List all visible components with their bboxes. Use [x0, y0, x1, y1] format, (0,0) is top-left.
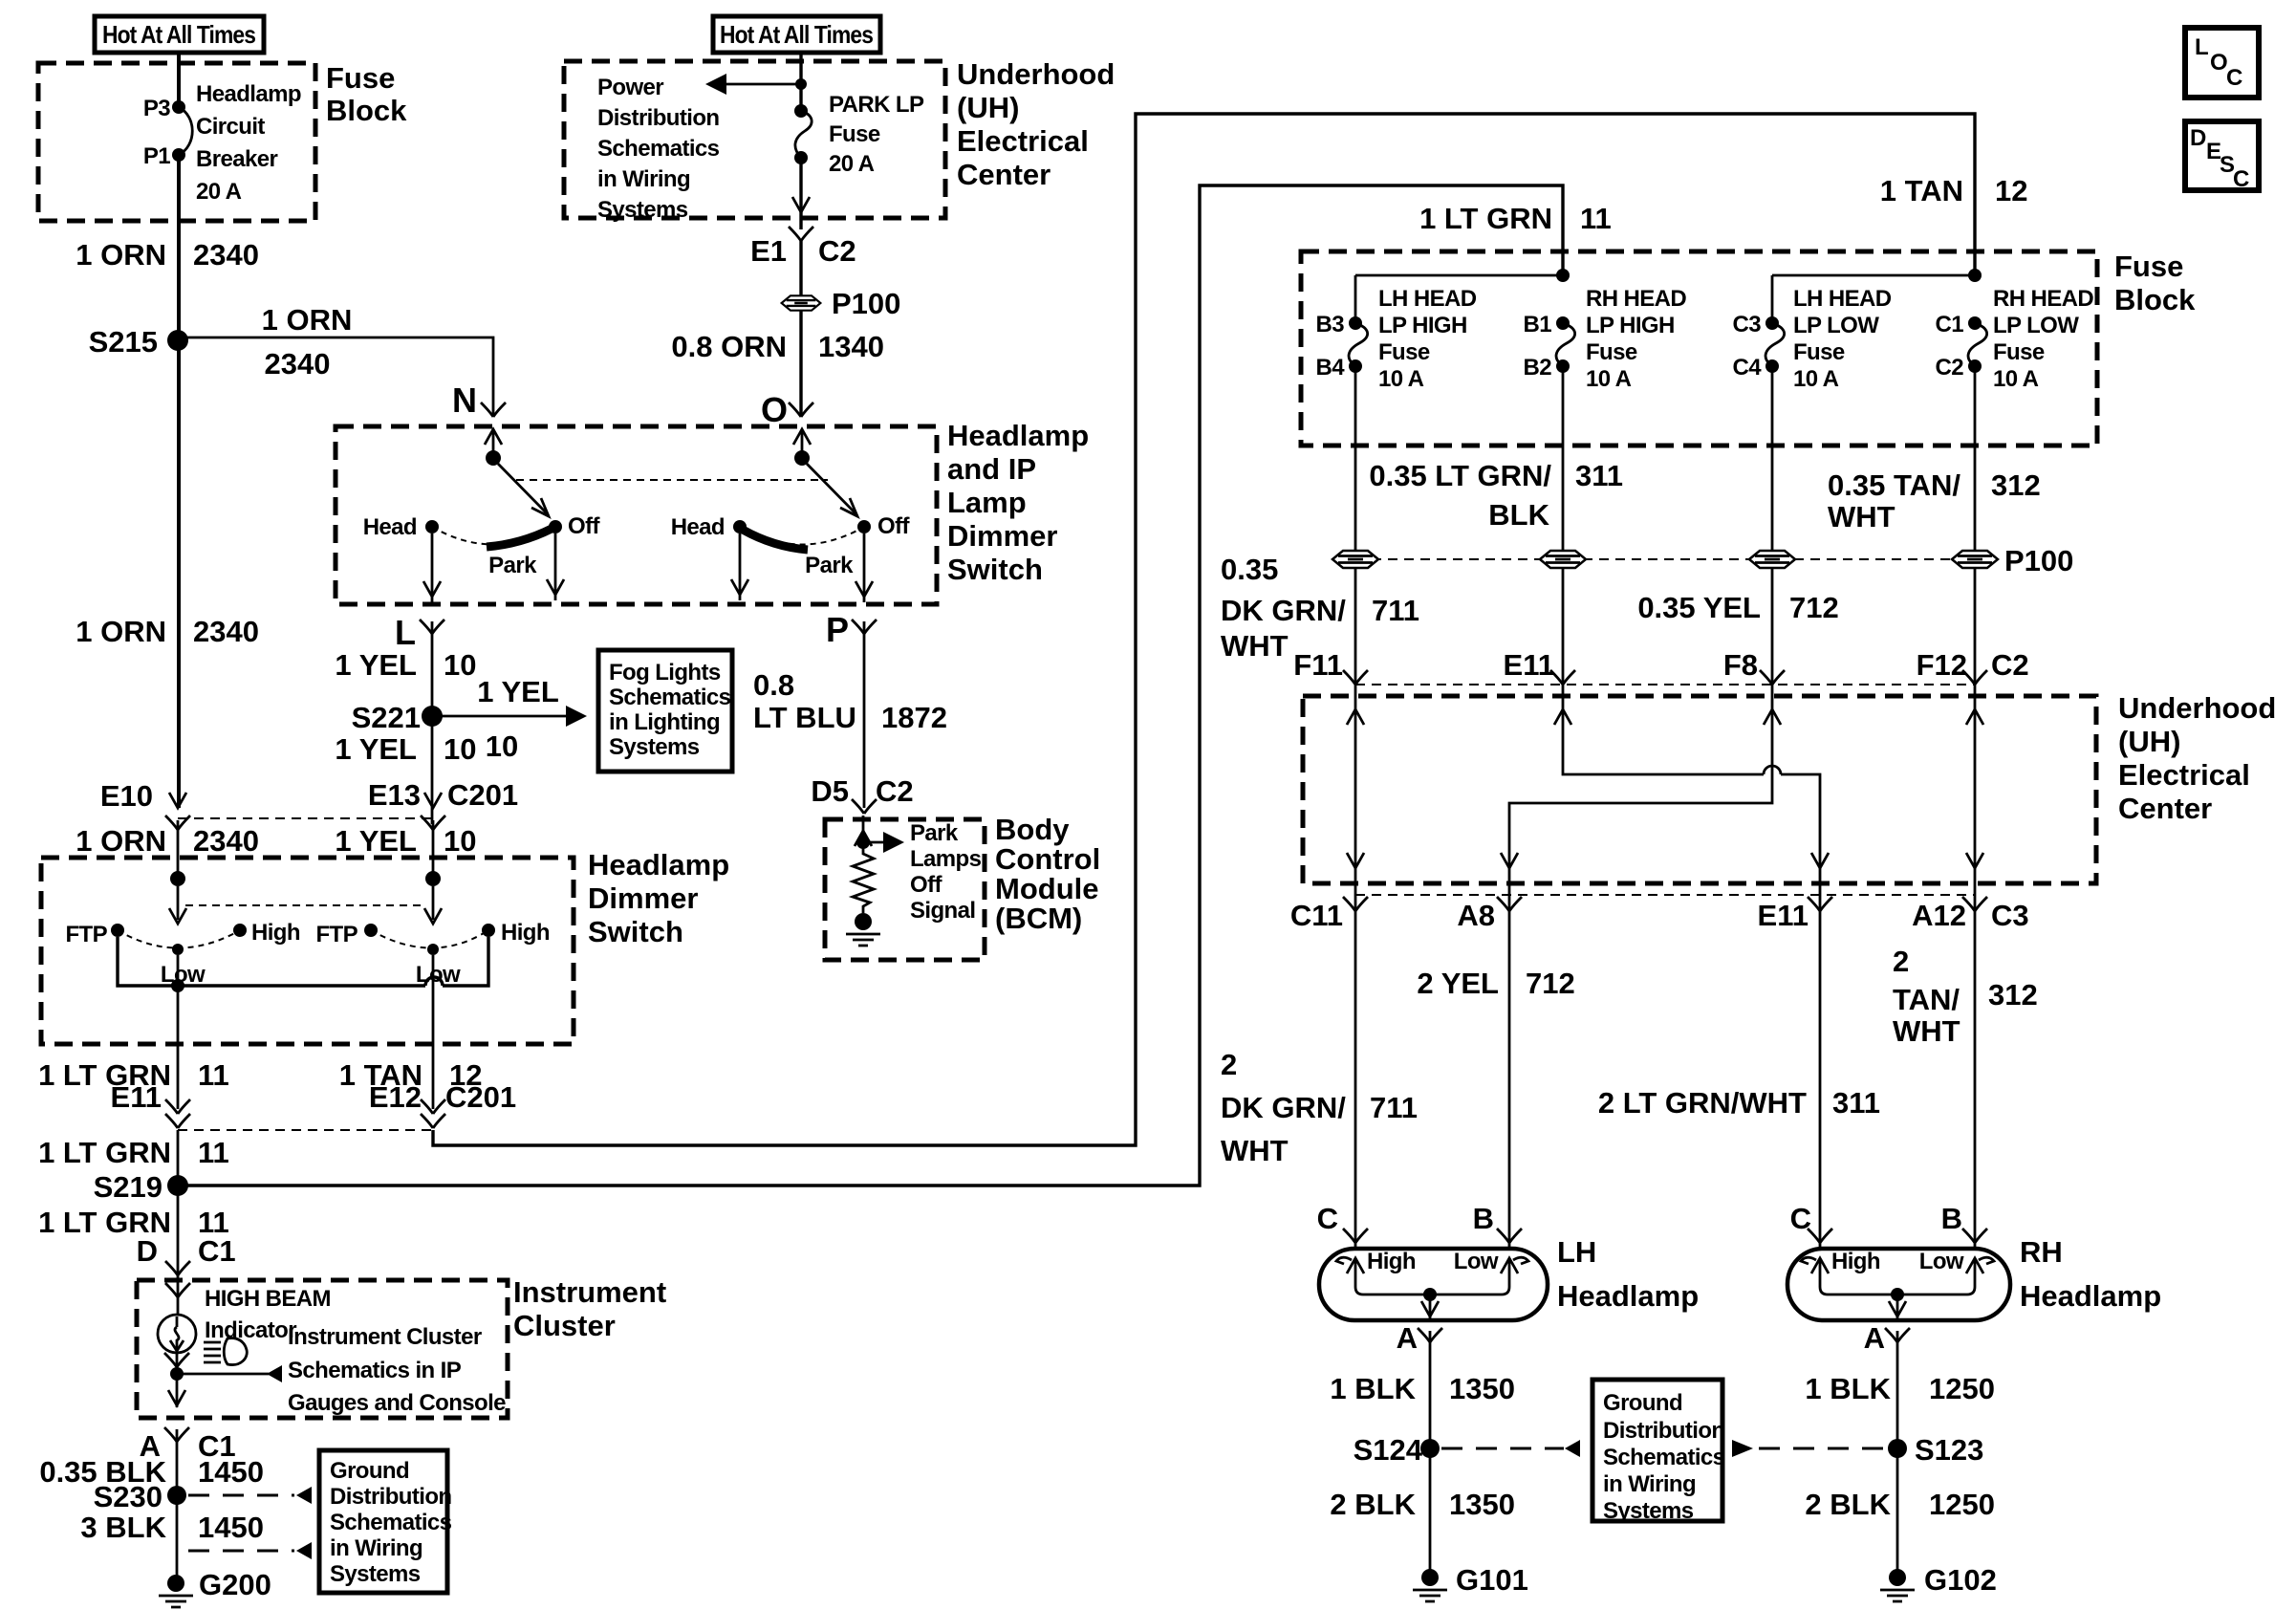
label Instrument Cluster Schematics in IP Gauges and Console: [288, 1324, 506, 1416]
arrow at box edge (Off stub): [547, 579, 564, 595]
inline connector P100 (F12 wire): [1952, 551, 1998, 568]
wire Off contact down to P: [863, 533, 866, 602]
inline connector P100 (middle): [782, 295, 821, 310]
wire 0.35 BLK cluster to S230: [176, 1429, 179, 1585]
svg-text:2: 2: [1893, 945, 1909, 978]
svg-text:20 A: 20 A: [196, 179, 242, 205]
svg-text:Fuse: Fuse: [2114, 250, 2183, 283]
label Underhood (UH) Electrical Center (top): [957, 57, 1115, 191]
arrow exiting UH (C11): [1347, 853, 1364, 868]
wire Head contact stub down (switch 2): [739, 533, 742, 600]
svg-text:E11: E11: [1758, 899, 1809, 932]
svg-text:G102: G102: [1924, 1563, 1997, 1597]
svg-text:11: 11: [1580, 202, 1612, 235]
dimmer switch 2 wiper arrow to Low: [424, 886, 442, 924]
RH high beam filament: [1801, 1257, 1829, 1287]
switch 2 contact Head: [733, 520, 747, 533]
inline connector P100 (E11 wire): [1540, 551, 1586, 568]
svg-text:Lamp: Lamp: [947, 486, 1027, 519]
svg-text:in Wiring: in Wiring: [330, 1535, 422, 1561]
connector chevron RH C: [1808, 1229, 1832, 1243]
fuse RH HEAD LP HIGH 10A: [1556, 316, 1575, 373]
svg-text:Instrument Cluster: Instrument Cluster: [288, 1324, 482, 1350]
junction TAN bus: [1968, 269, 1982, 282]
label Headlamp and IP Lamp Dimmer Switch: [947, 419, 1089, 586]
label HIGH BEAM Indicator: [205, 1286, 331, 1343]
svg-text:1 ORN: 1 ORN: [262, 303, 353, 337]
svg-text:S215: S215: [89, 325, 158, 359]
svg-text:0.35 LT GRN/: 0.35 LT GRN/: [1369, 459, 1551, 492]
svg-text:LP LOW: LP LOW: [1993, 313, 2079, 338]
svg-text:LP LOW: LP LOW: [1793, 313, 1879, 338]
arrow exiting cluster: [168, 1390, 185, 1405]
svg-text:Schematics: Schematics: [330, 1510, 452, 1535]
svg-text:FTP: FTP: [65, 922, 107, 947]
svg-text:10: 10: [444, 732, 476, 766]
label 1 LT GRN 11 (below box): [38, 1058, 229, 1092]
LH headlamp housing: [1319, 1249, 1548, 1320]
arrow entering UH (F8): [1764, 709, 1781, 725]
label RH HEAD LP HIGH Fuse 10 A: [1586, 286, 1686, 392]
label Park Lamps Off Signal: [910, 820, 982, 924]
svg-text:LH: LH: [1557, 1235, 1596, 1269]
svg-text:Fuse: Fuse: [1378, 339, 1430, 365]
wire C11 to LH headlamp C: [1354, 899, 1357, 1249]
svg-text:TAN/: TAN/: [1893, 983, 1960, 1016]
svg-text:S221: S221: [352, 701, 421, 734]
fog lights schematics box: [598, 650, 732, 772]
wire 1 ORN 2340 breaker to S215: [177, 155, 181, 340]
label 2 YEL 712: [1417, 967, 1574, 1000]
label Power Distribution Schematics in Wiring Systems: [597, 75, 720, 223]
node park lamps off signal: [856, 836, 870, 849]
legend box DESC: [2185, 121, 2259, 192]
svg-text:Signal: Signal: [910, 898, 975, 924]
label 0.35 LT GRN/ BLK 311: [1369, 459, 1623, 532]
connector chevron C11: [1343, 897, 1368, 911]
svg-text:10: 10: [444, 648, 476, 682]
svg-text:Head: Head: [671, 514, 725, 540]
svg-text:Fuse: Fuse: [1586, 339, 1637, 365]
connector C201 dashed line (upper): [178, 817, 433, 819]
arrow into connector C201 left: [169, 793, 186, 808]
label 3 BLK 1450: [80, 1511, 264, 1544]
node RH ground point: [1891, 1288, 1904, 1301]
switch 1 common node: [486, 450, 501, 466]
label 1 LT GRN 11 (to fuse block): [1419, 202, 1612, 235]
svg-text:Electrical: Electrical: [957, 124, 1089, 158]
svg-text:Control: Control: [995, 842, 1100, 876]
junction LT GRN bus: [1556, 269, 1570, 282]
label 1 YEL 10 (below S221): [335, 732, 476, 766]
arrow exiting UH (E11 out): [1811, 853, 1829, 868]
wire into BCM: [862, 816, 865, 849]
ground G101: [1413, 1563, 1528, 1601]
dimmer switch 1 wiper arrow to Low: [169, 886, 186, 924]
label 0.35 TAN/ WHT 312: [1828, 468, 2041, 533]
connector chevron E1/C2: [789, 227, 813, 241]
svg-text:312: 312: [1991, 468, 2041, 502]
svg-text:Fuse: Fuse: [829, 121, 880, 147]
wire 1 ORN 2340 S215 to switch N: [178, 337, 493, 417]
svg-text:311: 311: [1575, 459, 1623, 492]
svg-text:Gauges and Console: Gauges and Console: [288, 1390, 506, 1416]
splice S215: [89, 325, 188, 359]
svg-text:Power: Power: [597, 75, 663, 100]
svg-text:Headlamp: Headlamp: [196, 81, 301, 107]
LH high beam filament: [1336, 1257, 1364, 1287]
dimmer mechanical link dashed: [185, 904, 425, 906]
svg-text:E10: E10: [100, 779, 153, 813]
node fuse feed branch: [795, 78, 807, 90]
wire 1 YEL into headlamp dimmer switch: [432, 820, 435, 879]
reference arrow to IP gauges schematics: [177, 1365, 282, 1382]
svg-text:Center: Center: [957, 158, 1051, 191]
svg-text:in Wiring: in Wiring: [597, 166, 690, 192]
svg-text:Switch: Switch: [588, 915, 683, 948]
svg-text:Fuse: Fuse: [326, 61, 395, 95]
svg-text:Systems: Systems: [597, 197, 688, 223]
svg-text:Electrical: Electrical: [2118, 758, 2250, 792]
svg-text:Cluster: Cluster: [513, 1309, 616, 1342]
svg-text:Low: Low: [1919, 1249, 1964, 1274]
svg-text:1 BLK: 1 BLK: [1330, 1372, 1416, 1405]
svg-text:Underhood: Underhood: [957, 57, 1115, 91]
svg-text:2340: 2340: [193, 238, 259, 272]
arrowhead to fog lights: [566, 706, 587, 727]
connector chevron P: [852, 620, 877, 634]
ground distribution schematics box (left): [319, 1450, 447, 1593]
svg-text:C4: C4: [1733, 355, 1763, 381]
connector chevron F11: [1343, 670, 1368, 685]
svg-text:P: P: [826, 610, 849, 649]
dimmer switch 2 common node: [425, 871, 441, 886]
svg-text:1 ORN: 1 ORN: [76, 238, 166, 272]
label 1 YEL 10 (above S221): [335, 648, 476, 682]
ground G200: [159, 1568, 271, 1607]
wire fuse C4 down to F8: [1771, 366, 1774, 696]
connector chevron F12: [1962, 670, 1987, 685]
svg-text:Low: Low: [416, 962, 461, 988]
svg-text:1 ORN: 1 ORN: [76, 615, 166, 648]
connector dashed line below UH center: [1355, 894, 1975, 896]
dimmer switch 1 common node: [170, 871, 185, 886]
ground distribution schematics box (right): [1592, 1380, 1722, 1521]
dimmer switch 2 contact High: [482, 924, 495, 937]
svg-text:1 YEL: 1 YEL: [335, 732, 417, 766]
dashed reference from S230: [188, 1487, 312, 1504]
power label Hot At All Times (middle): [713, 16, 880, 53]
switch 1 contact Off: [549, 520, 562, 533]
wire feed into PARK LP fuse: [799, 53, 802, 111]
dimmer switch 2 contact Low: [427, 944, 439, 955]
svg-text:F8: F8: [1723, 648, 1758, 682]
svg-text:P3: P3: [143, 96, 170, 121]
svg-text:WHT: WHT: [1893, 1014, 1960, 1048]
fuse block (left) dashed box: [38, 63, 315, 221]
svg-text:20 A: 20 A: [829, 151, 875, 177]
wire F11 to C11 (DK GRN): [1354, 696, 1357, 899]
label RH Headlamp: [2020, 1235, 2161, 1313]
svg-text:Off: Off: [910, 872, 942, 898]
svg-text:10: 10: [444, 824, 476, 858]
svg-text:2: 2: [1221, 1048, 1237, 1081]
svg-text:C1: C1: [1936, 312, 1964, 337]
svg-text:Systems: Systems: [609, 734, 700, 760]
svg-text:DK GRN/: DK GRN/: [1221, 594, 1346, 627]
svg-text:Schematics: Schematics: [597, 136, 720, 162]
switch 2 travel arc dashed: [740, 527, 864, 545]
svg-text:B3: B3: [1316, 312, 1345, 337]
svg-text:HIGH BEAM: HIGH BEAM: [205, 1286, 331, 1312]
svg-text:2340: 2340: [193, 824, 259, 858]
svg-text:B: B: [1941, 1202, 1962, 1235]
wire LT GRN E11 to instrument cluster: [177, 1130, 180, 1280]
wire S221 to fog lights: [432, 715, 570, 718]
label PARK LP Fuse 20 A: [829, 92, 924, 177]
svg-text:Switch: Switch: [947, 553, 1043, 586]
svg-text:L: L: [395, 613, 416, 652]
svg-text:High: High: [251, 920, 300, 946]
svg-text:S219: S219: [94, 1170, 162, 1204]
wire fuse C2 down to F12: [1974, 366, 1977, 696]
arrow at box edge (Off output P): [856, 581, 873, 597]
indicator lamp HIGH BEAM: [158, 1315, 196, 1353]
RH headlamp housing: [1787, 1249, 2010, 1320]
dashed reference to S123: [1732, 1440, 1888, 1457]
wire LH A to G101: [1429, 1331, 1432, 1579]
svg-text:RH: RH: [2020, 1235, 2063, 1269]
arrow entering BCM: [855, 831, 872, 846]
wire high-beam output (TAN) through box: [432, 955, 435, 1109]
wire fuse B2 down to E11: [1562, 366, 1565, 696]
label 0.8 ORN 1340: [671, 330, 884, 363]
label 1 BLK 1250: [1805, 1372, 1995, 1405]
wire P to D5: [863, 621, 866, 808]
svg-text:712: 712: [1526, 967, 1575, 1000]
ground G102: [1880, 1563, 1997, 1601]
label Instrument Cluster: [513, 1275, 666, 1342]
connector chevron D/C1: [165, 1261, 190, 1275]
label 1 YEL 10 (below C201): [335, 824, 476, 858]
wire RH A to G102: [1896, 1331, 1899, 1579]
RH ground stem: [1889, 1295, 1906, 1318]
wire L to S221: [431, 621, 434, 824]
svg-text:Systems: Systems: [330, 1561, 421, 1587]
label LH HEAD LP HIGH Fuse 10 A: [1378, 286, 1477, 392]
svg-text:2 BLK: 2 BLK: [1330, 1488, 1416, 1521]
svg-text:1 ORN: 1 ORN: [76, 824, 166, 858]
svg-text:WHT: WHT: [1221, 629, 1289, 663]
arrow at box edge (Head output): [423, 581, 441, 597]
svg-text:WHT: WHT: [1221, 1134, 1289, 1167]
wire A8 to LH headlamp B: [1508, 899, 1511, 1249]
svg-text:Hot At All Times: Hot At All Times: [720, 20, 873, 49]
svg-text:C201: C201: [445, 1080, 516, 1114]
svg-text:LT BLU: LT BLU: [753, 701, 856, 734]
headlamp and IP lamp dimmer switch dashed box: [336, 426, 937, 604]
svg-text:0.8: 0.8: [753, 668, 794, 702]
fuse LH HEAD LP LOW 10A: [1765, 316, 1785, 373]
LH ground stem: [1421, 1295, 1439, 1318]
svg-text:P100: P100: [2004, 544, 2073, 577]
svg-text:C: C: [1317, 1202, 1338, 1235]
svg-text:E12: E12: [369, 1080, 422, 1114]
label 1 TAN 12: [339, 1058, 483, 1092]
svg-text:(UH): (UH): [2118, 725, 2180, 758]
svg-text:1250: 1250: [1929, 1488, 1995, 1521]
svg-text:LH HEAD: LH HEAD: [1378, 286, 1477, 312]
label 2 BLK 1350: [1330, 1488, 1515, 1521]
svg-text:2 YEL: 2 YEL: [1417, 967, 1499, 1000]
svg-text:C2: C2: [1991, 648, 2029, 682]
connector chevron L: [420, 620, 444, 634]
svg-text:LP HIGH: LP HIGH: [1586, 313, 1675, 338]
ground inside BCM: [846, 913, 880, 946]
svg-text:1 YEL: 1 YEL: [335, 824, 417, 858]
connector chevron E10: [165, 816, 190, 830]
svg-text:Headlamp: Headlamp: [947, 419, 1089, 452]
connector chevron LH B: [1497, 1229, 1522, 1243]
node LH ground point: [1423, 1288, 1437, 1301]
label 0.35 YEL 712: [1637, 591, 1838, 624]
headlamp dimmer switch dashed box: [41, 858, 574, 1044]
label Ground Distribution Schematics in Wiring Systems (right): [1603, 1390, 1725, 1524]
connector dashed line above UH center: [1355, 684, 1975, 685]
svg-text:D: D: [2190, 125, 2206, 151]
connector chevron F8: [1760, 670, 1785, 685]
svg-text:Instrument: Instrument: [513, 1275, 666, 1309]
label 1 ORN 2340 (below C201): [76, 824, 259, 858]
svg-text:A12: A12: [1912, 899, 1966, 932]
label Headlamp Dimmer Switch: [588, 848, 729, 948]
svg-text:1 YEL: 1 YEL: [335, 648, 417, 682]
svg-text:L: L: [2195, 34, 2208, 60]
svg-text:G101: G101: [1456, 1563, 1528, 1597]
label LH Headlamp: [1557, 1235, 1699, 1313]
svg-text:Module: Module: [995, 872, 1099, 905]
wire S215 trunk to E10: [177, 340, 181, 808]
underhood electrical center (right) dashed box: [1303, 696, 2096, 883]
svg-text:1340: 1340: [818, 330, 884, 363]
wire O into switch: [801, 429, 804, 458]
label 1 TAN 12 (to fuse block): [1880, 174, 2028, 207]
svg-text:E13: E13: [368, 778, 421, 812]
svg-text:1350: 1350: [1449, 1488, 1515, 1521]
svg-text:Park: Park: [488, 553, 537, 578]
RH low beam filament: [1966, 1257, 1994, 1287]
svg-text:711: 711: [1370, 1091, 1418, 1124]
svg-text:2340: 2340: [193, 615, 259, 648]
splice S221: [352, 701, 443, 734]
svg-text:1350: 1350: [1449, 1372, 1515, 1405]
svg-text:311: 311: [1832, 1086, 1880, 1120]
dashed reference from S124: [1441, 1440, 1580, 1457]
svg-text:C201: C201: [447, 778, 518, 812]
fuse PARK LP 20 A: [794, 104, 812, 164]
svg-text:12: 12: [1995, 174, 2027, 207]
label 2 DK GRN/ WHT 711: [1221, 1048, 1418, 1167]
underhood electrical center (top) dashed box: [564, 61, 945, 218]
svg-text:2 LT GRN/WHT: 2 LT GRN/WHT: [1598, 1086, 1807, 1120]
arrow at box edge (Head stub sw2): [731, 579, 748, 595]
svg-text:Ground: Ground: [1603, 1390, 1682, 1416]
switch 1 travel arc dashed: [432, 527, 555, 545]
svg-text:in Lighting: in Lighting: [609, 709, 720, 735]
svg-text:1 YEL: 1 YEL: [477, 675, 559, 708]
arrow entering UH (E11): [1554, 709, 1571, 725]
arrow exiting UH (A12): [1966, 853, 1983, 868]
connector chevron E11 out: [1808, 897, 1832, 911]
svg-text:(BCM): (BCM): [995, 902, 1082, 935]
svg-text:Distribution: Distribution: [330, 1484, 451, 1510]
connector chevron E11 (UH): [1550, 670, 1575, 685]
connector P100 dashed line: [1355, 558, 1952, 560]
svg-text:1 TAN: 1 TAN: [1880, 174, 1963, 207]
inline connector P100 (F11 wire): [1332, 551, 1378, 568]
svg-text:Schematics: Schematics: [1603, 1445, 1725, 1470]
svg-text:Dimmer: Dimmer: [947, 519, 1057, 553]
svg-text:Block: Block: [2114, 283, 2196, 316]
svg-text:Off: Off: [568, 513, 600, 539]
bus TAN inside fuse block: [1772, 275, 1975, 323]
svg-text:Hot At All Times: Hot At All Times: [102, 20, 255, 49]
connector C201 dashed line (lower): [178, 1129, 433, 1131]
svg-text:Distribution: Distribution: [597, 105, 719, 131]
connector chevron A8: [1497, 897, 1522, 911]
switch 1 contact Head: [425, 520, 439, 533]
svg-text:Headlamp: Headlamp: [1557, 1279, 1699, 1313]
switch 2 wiper thick arc (Head to Park): [743, 530, 808, 550]
wire branch to power distribution arrow: [723, 83, 801, 86]
svg-text:Systems: Systems: [1603, 1498, 1694, 1524]
arrow entering UH (F12): [1966, 709, 1983, 725]
svg-text:E1: E1: [750, 234, 787, 268]
svg-text:B1: B1: [1524, 312, 1552, 337]
label 1 ORN 2340 (second): [76, 615, 259, 648]
label RH HEAD LP LOW Fuse 10 A: [1993, 286, 2093, 392]
wire E11 to RH headlamp C: [1819, 899, 1822, 1249]
wire Off contact stub down: [554, 533, 557, 600]
svg-text:1450: 1450: [198, 1511, 264, 1544]
svg-text:B2: B2: [1524, 355, 1552, 381]
mechanical link dashed (switch1 to switch2): [516, 479, 828, 481]
legend box LOC: [2185, 28, 2259, 98]
connector chevron N: [481, 402, 506, 417]
svg-text:N: N: [452, 381, 477, 420]
svg-text:1450: 1450: [198, 1455, 264, 1489]
svg-text:Block: Block: [326, 94, 407, 127]
svg-text:Center: Center: [2118, 792, 2212, 825]
svg-text:Dimmer: Dimmer: [588, 881, 698, 915]
svg-text:Lamps: Lamps: [910, 846, 982, 872]
dimmer switch 1 travel arc dashed: [118, 930, 240, 948]
svg-text:Headlamp: Headlamp: [2020, 1279, 2161, 1313]
svg-text:O: O: [2210, 50, 2227, 76]
wire battery feed into circuit breaker: [177, 53, 181, 107]
svg-text:High: High: [501, 920, 550, 946]
switch 1 wiper arrow to Off: [498, 464, 549, 516]
svg-text:Ground: Ground: [330, 1458, 409, 1484]
resistor pull-down in BCM: [853, 849, 874, 913]
wire fuse B4 down to F11: [1354, 366, 1357, 696]
connector chevron E13: [421, 816, 445, 830]
switch 2 contact Off: [857, 520, 871, 533]
dimmer switch 1 contact Low: [172, 944, 184, 955]
instrument cluster dashed box: [137, 1280, 508, 1418]
connector double chevron E12: [421, 1099, 445, 1128]
svg-text:High: High: [1367, 1249, 1416, 1274]
